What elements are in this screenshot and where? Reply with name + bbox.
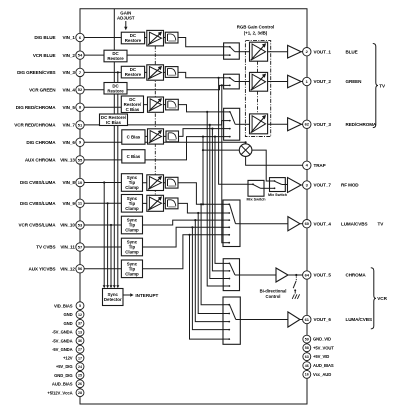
pin VOUT_5 circle 64 bbox=[303, 271, 311, 279]
power pin +5V_VID circle 63 bbox=[303, 353, 311, 361]
wire mixer left input bbox=[203, 149, 239, 151]
wire junction dots bbox=[103, 71, 247, 236]
svg-text:36: 36 bbox=[78, 339, 82, 343]
sync tip clamp block at VIN row 225 bbox=[121, 216, 142, 234]
pin TRAP circle 4 bbox=[303, 161, 311, 169]
sync tip clamp block at VIN row 268.8 bbox=[121, 260, 142, 278]
pin VOUT_6 circle 61 bbox=[303, 315, 311, 323]
svg-text:53: 53 bbox=[78, 222, 83, 227]
DC restore block VIN_3 bbox=[121, 66, 144, 78]
variable gain amp VIN_6 bbox=[148, 129, 164, 144]
wire bus VIN_12 to muxC in5 bbox=[190, 235, 224, 339]
wire VIN_6 chain line to mux3 bbox=[125, 129, 224, 137]
wire mux3 to gain amp U3 bbox=[240, 123, 250, 125]
svg-text:GND: GND bbox=[63, 312, 72, 317]
gain adjust label and arrow bbox=[117, 11, 135, 31]
wire bus VIN_10 to muxC in3 bbox=[195, 220, 223, 322]
wire mix switch 1 to RF buffer bbox=[285, 184, 287, 186]
wire muxB to VOUT_5 buffer bbox=[240, 274, 277, 276]
wire RF buffer to VOUT_7 bbox=[301, 184, 303, 186]
svg-text:25: 25 bbox=[78, 373, 82, 377]
svg-text:(+1, 2, 3dB): (+1, 2, 3dB) bbox=[244, 30, 268, 35]
svg-text:+5/12V_VccA: +5/12V_VccA bbox=[47, 390, 72, 395]
pin VOUT_7 circle 3 bbox=[303, 181, 311, 189]
svg-text:VOUT_1: VOUT_1 bbox=[314, 49, 332, 54]
svg-text:VCR BLUE: VCR BLUE bbox=[33, 53, 56, 58]
svg-text:VIN_1: VIN_1 bbox=[63, 35, 76, 40]
output buffer VOUT_6 bbox=[288, 312, 300, 327]
svg-text:+12V: +12V bbox=[63, 356, 73, 361]
svg-text:VIN_2: VIN_2 bbox=[63, 53, 76, 58]
svg-text:CHROMA: CHROMA bbox=[346, 273, 367, 278]
svg-text:61: 61 bbox=[305, 317, 310, 322]
variable gain amp VIN_9 bbox=[147, 195, 164, 211]
wire bus VIN_5 to muxB in4 bbox=[207, 112, 223, 286]
input select switch mux1 (VOUT_1) bbox=[224, 43, 240, 59]
C bias block VIN_13 bbox=[122, 150, 145, 163]
svg-text:59: 59 bbox=[305, 337, 309, 341]
svg-text:VCR GREEN: VCR GREEN bbox=[29, 88, 56, 93]
svg-text:VOUT_7: VOUT_7 bbox=[314, 183, 332, 188]
svg-text:AUD_BIAS: AUD_BIAS bbox=[313, 363, 334, 368]
svg-text:+5V_VOUT: +5V_VOUT bbox=[313, 345, 334, 350]
svg-text:-5V_GNDA: -5V_GNDA bbox=[52, 330, 72, 335]
wire mixer to mix switch 1 bbox=[252, 150, 270, 181]
svg-text:VIN_6: VIN_6 bbox=[63, 140, 76, 145]
wire VIN_11 line to muxA in4 bbox=[84, 227, 223, 247]
sync tip clamp block at VIN row 182.5 bbox=[121, 174, 142, 192]
pin VOUT_4 circle 60 bbox=[303, 220, 311, 228]
filter block VIN_6 bbox=[166, 131, 179, 142]
svg-text:VIN_10: VIN_10 bbox=[60, 223, 75, 228]
wire buffer to VOUT_3 bbox=[301, 123, 303, 125]
svg-text:51: 51 bbox=[78, 122, 83, 127]
wire VIN_8 luma line bbox=[84, 182, 125, 184]
svg-text:C Bias: C Bias bbox=[126, 107, 140, 112]
svg-text:ADJUST: ADJUST bbox=[117, 16, 135, 21]
wire sync tap A from top rail bbox=[113, 9, 115, 286]
svg-text:DIG GREEN/CVBS: DIG GREEN/CVBS bbox=[17, 70, 55, 75]
wire VOUT_5 buffer to pin bbox=[288, 274, 303, 276]
svg-text:55: 55 bbox=[78, 157, 83, 162]
svg-text:Clamp: Clamp bbox=[125, 271, 139, 276]
svg-text:VOUT_4: VOUT_4 bbox=[314, 221, 332, 226]
wire VIN_10 line to muxA in3 bbox=[84, 220, 223, 225]
wire VIN_2 vcr blue path to mux1 bbox=[84, 54, 223, 56]
svg-text:64: 64 bbox=[305, 272, 310, 277]
wire buffer to VOUT_2 bbox=[301, 81, 303, 83]
svg-text:VIN_9: VIN_9 bbox=[63, 201, 76, 206]
wire VIN_5 chain line bbox=[125, 105, 224, 112]
power pin -5V_GNDA circle 36 bbox=[76, 337, 84, 345]
pin VIN_7 circle 51 bbox=[76, 121, 84, 129]
filter block VIN_5 bbox=[166, 99, 179, 110]
variable gain amp VIN_5 bbox=[148, 97, 164, 112]
output buffer VOUT_2 bbox=[288, 75, 302, 88]
output buffer VOUT_1 bbox=[288, 45, 302, 58]
power pin -5V_GNDA circle 13 bbox=[76, 328, 84, 336]
wire gain amp U1 to buffer bbox=[268, 51, 288, 53]
svg-text:37: 37 bbox=[78, 322, 82, 326]
wire bus VIN_4 cvbs to muxA in6 bbox=[222, 85, 223, 242]
variable gain amp VIN_3 bbox=[147, 65, 164, 80]
wire VIN_5 pin stub bbox=[84, 106, 125, 108]
svg-text:Vcc_AUD: Vcc_AUD bbox=[313, 372, 331, 377]
pin VIN_3 circle 7 bbox=[76, 68, 84, 76]
power pin +5V_DIG circle 24 bbox=[76, 363, 84, 371]
svg-text:LUMA/CVBS: LUMA/CVBS bbox=[346, 317, 372, 322]
svg-text:26: 26 bbox=[78, 382, 82, 386]
DC restore block VIN_2 bbox=[104, 50, 127, 62]
svg-text:Restore: Restore bbox=[107, 56, 124, 61]
svg-text:Clamp: Clamp bbox=[125, 228, 139, 233]
variable gain amp VIN_8 bbox=[147, 175, 164, 191]
svg-text:C Bias: C Bias bbox=[127, 154, 141, 159]
wire VIN_13 path to mux3 bbox=[84, 137, 223, 160]
sync detector input arrowheads bbox=[103, 285, 120, 288]
svg-text:27: 27 bbox=[78, 348, 82, 352]
wire VOUT_6 buffer to pin bbox=[300, 319, 303, 321]
wire VIN_1 blue path to mux1 bbox=[84, 38, 223, 47]
pin VIN_11 circle 57 bbox=[76, 243, 84, 251]
svg-text:17: 17 bbox=[78, 356, 82, 360]
svg-text:RF MOD: RF MOD bbox=[341, 183, 359, 188]
power pin AUD_BIAS circle 46 bbox=[303, 362, 311, 370]
VCR group brace bbox=[371, 268, 388, 329]
wire sync tap D from VIN_9 bbox=[107, 203, 109, 285]
svg-text:16: 16 bbox=[305, 373, 309, 377]
wire bus VIN_7 to muxB in3 bbox=[210, 125, 223, 279]
svg-text:GREEN: GREEN bbox=[346, 79, 363, 84]
wire mix switch 2 to mix switch 1 bbox=[264, 187, 270, 189]
wire buffer to VOUT_1 bbox=[301, 51, 303, 53]
svg-text:56: 56 bbox=[78, 266, 83, 271]
input select switch muxA (VOUT_4) bbox=[223, 200, 240, 247]
svg-text:VIN_4: VIN_4 bbox=[63, 88, 76, 93]
svg-text:-5V_GNDA: -5V_GNDA bbox=[52, 347, 72, 352]
pin VIN_13 circle 55 bbox=[76, 156, 84, 164]
svg-text:13: 13 bbox=[78, 330, 82, 334]
svg-text:VID_BIAS: VID_BIAS bbox=[54, 303, 73, 308]
svg-text:Control: Control bbox=[266, 294, 281, 299]
pin VIN_4 circle 52 bbox=[76, 86, 84, 94]
svg-text:52: 52 bbox=[78, 87, 83, 92]
svg-text:AUD_BIAS: AUD_BIAS bbox=[52, 381, 73, 386]
svg-text:VOUT_2: VOUT_2 bbox=[314, 79, 332, 84]
svg-text:VIN_3: VIN_3 bbox=[63, 70, 76, 75]
power pin VID_BIAS circle 5 bbox=[76, 302, 84, 310]
pin VIN_6 circle 9 bbox=[76, 138, 84, 146]
filter block VIN_9 bbox=[165, 198, 178, 209]
pin VIN_9 circle 11 bbox=[76, 199, 84, 207]
svg-text:AUX CHROMA: AUX CHROMA bbox=[25, 158, 56, 163]
mix switch 1 box bbox=[268, 178, 288, 197]
wire VOUT_4 buffer to pin bbox=[300, 223, 303, 225]
filter block VIN_8 bbox=[165, 177, 178, 188]
pin VIN_2 circle 54 bbox=[76, 51, 84, 59]
svg-text:-5V_GNDA: -5V_GNDA bbox=[52, 338, 72, 343]
svg-text:DIG CVBS/LUMA: DIG CVBS/LUMA bbox=[20, 180, 56, 185]
pin VIN_8 circle 10 bbox=[76, 178, 84, 186]
wire sync tap C from VIN_8 bbox=[103, 183, 105, 286]
svg-text:VCR CVBS/LUMA: VCR CVBS/LUMA bbox=[19, 223, 57, 228]
svg-text:VOUT_3: VOUT_3 bbox=[314, 122, 332, 127]
wire muxC to VOUT_6 buffer bbox=[240, 319, 288, 321]
sync tip clamp block at VIN row 203.3 bbox=[121, 195, 142, 213]
svg-text:62: 62 bbox=[305, 122, 310, 127]
wire sync tap E from VIN_10 bbox=[110, 225, 112, 286]
power pin +5V_VOUT circle 58 bbox=[303, 344, 311, 352]
pin VOUT_3 circle 62 bbox=[303, 120, 311, 128]
wire bus VIN_9 to muxC in2 bbox=[198, 213, 223, 314]
wire bus tap down past mixer bbox=[202, 137, 204, 205]
svg-text:VIN_11: VIN_11 bbox=[60, 245, 75, 250]
svg-text:TV CVBS: TV CVBS bbox=[36, 245, 55, 250]
svg-text:DIG RED/CHROMA: DIG RED/CHROMA bbox=[16, 105, 56, 110]
wire mux2 to gain amp U2 bbox=[239, 81, 249, 83]
svg-text:Mix Switch: Mix Switch bbox=[268, 193, 288, 197]
wire mux1 to gain amp U1 bbox=[239, 51, 249, 53]
svg-text:VCR RED/CHROMA: VCR RED/CHROMA bbox=[14, 123, 56, 128]
svg-text:Restore: Restore bbox=[125, 38, 142, 43]
power pin GND circle 37 bbox=[76, 319, 84, 327]
variable gain amp VIN_1 bbox=[147, 30, 164, 46]
svg-text:28: 28 bbox=[78, 391, 82, 395]
svg-text:63: 63 bbox=[305, 355, 309, 359]
svg-text:VCR: VCR bbox=[377, 296, 387, 301]
wire VIN_9 chain line to muxA in2 bbox=[125, 203, 223, 213]
svg-text:58: 58 bbox=[305, 346, 309, 350]
svg-text:Clamp: Clamp bbox=[125, 250, 139, 255]
mixer (luma/chroma adder) bbox=[239, 144, 252, 157]
wire VIN_12 line to muxA in5 bbox=[84, 235, 223, 269]
svg-text:C Bias: C Bias bbox=[127, 135, 141, 140]
input select switch muxC (VOUT_6) bbox=[223, 297, 240, 344]
svg-text:VOUT_5: VOUT_5 bbox=[314, 273, 332, 278]
svg-text:BLUE: BLUE bbox=[346, 49, 358, 54]
pin VIN_5 circle 8 bbox=[76, 103, 84, 111]
svg-text:VIN_8: VIN_8 bbox=[63, 180, 76, 185]
TV group brace bbox=[373, 44, 386, 128]
bi-directional buffer VOUT_5 bbox=[276, 268, 288, 282]
bi-directional control switch and ground bbox=[260, 274, 300, 299]
svg-text:GND: GND bbox=[63, 321, 72, 326]
DC restore block VIN_4 bbox=[104, 83, 127, 95]
svg-text:46: 46 bbox=[305, 364, 309, 368]
power pin +12V circle 17 bbox=[76, 354, 84, 362]
wire VIN_3 green path to mux2 bbox=[84, 72, 223, 77]
wire muxA to VOUT_4 buffer bbox=[240, 223, 288, 225]
interrupt output arrow and label bbox=[123, 293, 159, 298]
svg-text:DIG CVBS/LUMA: DIG CVBS/LUMA bbox=[20, 201, 56, 206]
input select switch mux2 (VOUT_2) bbox=[224, 74, 240, 89]
svg-text:VOUT_6: VOUT_6 bbox=[314, 317, 332, 322]
wire mixer to TRAP pin bbox=[246, 156, 303, 165]
C bias block VIN_6 bbox=[122, 130, 145, 144]
svg-text:Clamp: Clamp bbox=[125, 206, 139, 211]
wire VIN_8 chain line to muxA in1 bbox=[125, 183, 223, 205]
power pin Vcc_AUD circle 16 bbox=[303, 370, 311, 378]
pin VOUT_2 circle 1 bbox=[303, 77, 311, 85]
output buffer VOUT_7 (RF MOD) bbox=[288, 178, 302, 193]
svg-text:60: 60 bbox=[305, 221, 310, 226]
input select switch muxB (VOUT_5) bbox=[223, 259, 239, 291]
svg-text:RED/CHROMA: RED/CHROMA bbox=[346, 122, 377, 127]
svg-text:VIN_13: VIN_13 bbox=[60, 158, 75, 163]
svg-text:INTERUPT: INTERUPT bbox=[135, 293, 158, 298]
svg-text:Detector: Detector bbox=[104, 297, 122, 302]
svg-text:AUX Y/CVBS: AUX Y/CVBS bbox=[29, 267, 56, 272]
svg-text:VIN_12: VIN_12 bbox=[60, 267, 75, 272]
svg-text:LUMA/CVBS: LUMA/CVBS bbox=[341, 221, 367, 226]
power pin AUD_BIAS circle 26 bbox=[76, 380, 84, 388]
svg-text:GND_VID: GND_VID bbox=[313, 337, 331, 342]
svg-text:VIN_7: VIN_7 bbox=[63, 123, 76, 128]
wire sync tap B from VIN_3 bbox=[117, 72, 119, 285]
power pin GND circle 12 bbox=[76, 311, 84, 319]
filter block VIN_3 bbox=[165, 67, 178, 78]
sync detector block bbox=[103, 289, 124, 306]
svg-text:TV: TV bbox=[379, 83, 386, 88]
power pin +5/12V_VccA circle 28 bbox=[76, 389, 84, 397]
svg-text:GND_DIG: GND_DIG bbox=[54, 373, 72, 378]
wire bus VIN_13 to muxB in1 bbox=[215, 137, 223, 264]
svg-text:VIN_5: VIN_5 bbox=[63, 105, 76, 110]
RGB gain amp for VOUT_2 bbox=[250, 72, 268, 91]
svg-text:Restore: Restore bbox=[125, 72, 142, 77]
wire gain amp U3 to buffer bbox=[268, 123, 288, 125]
pin VIN_12 circle 56 bbox=[76, 265, 84, 273]
DC restore / C bias block VIN_5 bbox=[121, 96, 143, 113]
wire VIN_7 path to mux3 bbox=[84, 121, 223, 125]
output buffer VOUT_3 bbox=[288, 118, 302, 131]
svg-text:+5V_DIG: +5V_DIG bbox=[56, 364, 73, 369]
output buffer VOUT_4 bbox=[288, 217, 300, 231]
RGB gain amp for VOUT_3 bbox=[250, 114, 268, 134]
svg-text:TRAP: TRAP bbox=[314, 163, 326, 168]
dash-dot gain link inside RGB box bbox=[257, 61, 259, 114]
svg-text:5: 5 bbox=[79, 304, 81, 308]
svg-text:DIG BLUE: DIG BLUE bbox=[34, 35, 55, 40]
svg-text:12: 12 bbox=[78, 313, 82, 317]
svg-text:+5V_VID: +5V_VID bbox=[313, 354, 329, 359]
svg-text:57: 57 bbox=[78, 244, 83, 249]
sync tip clamp block at VIN row 247 bbox=[121, 238, 142, 256]
chip outline box bbox=[80, 9, 307, 404]
wire gain amp U2 to buffer bbox=[268, 81, 288, 83]
svg-text:10: 10 bbox=[78, 180, 83, 185]
power pin -5V_GNDA circle 27 bbox=[76, 345, 84, 353]
wire VIN_4 vcr green path to mux2 bbox=[84, 85, 223, 89]
wire bus VIN_11 to muxC in4 bbox=[192, 227, 223, 329]
power pin GND_DIG circle 25 bbox=[76, 371, 84, 379]
pin VIN_1 circle 6 bbox=[76, 33, 84, 41]
input select switch mux3 (VOUT_3) bbox=[224, 108, 240, 140]
svg-text:24: 24 bbox=[78, 365, 82, 369]
svg-text:Restore: Restore bbox=[107, 88, 124, 93]
DC restore / IC bias block VIN_7 bbox=[100, 114, 128, 126]
svg-text:IC Bias: IC Bias bbox=[106, 120, 121, 125]
wire VIN_9 luma line bbox=[84, 202, 125, 204]
DC restore block VIN_1 bbox=[121, 32, 144, 44]
wire bus VIN_6 to muxB in2 bbox=[212, 129, 223, 271]
svg-text:Mix Switch: Mix Switch bbox=[246, 198, 266, 202]
wire bus VIN_3 cvbs to mix switch 2 bbox=[219, 78, 248, 185]
pin VIN_10 circle 53 bbox=[76, 221, 84, 229]
gain control dash-dot bus linking variable gain amps bbox=[154, 46, 156, 195]
filter block VIN_1 bbox=[165, 32, 178, 43]
power pin GND_VID circle 59 bbox=[303, 335, 311, 343]
svg-text:54: 54 bbox=[78, 53, 83, 58]
svg-text:Clamp: Clamp bbox=[125, 185, 139, 190]
RGB gain amp for VOUT_1 bbox=[250, 42, 268, 61]
wire bus VIN_8 to muxC in1 bbox=[201, 204, 223, 304]
mix switch 2 box bbox=[246, 180, 266, 201]
svg-text:RGB Gain Control: RGB Gain Control bbox=[237, 25, 275, 30]
wire VIN_6 chroma line to mixer bbox=[84, 142, 245, 144]
pin VOUT_1 circle 2 bbox=[303, 48, 311, 56]
svg-text:DIG CHROMA: DIG CHROMA bbox=[26, 140, 56, 145]
RGB gain control dashed enclosure bbox=[245, 41, 270, 137]
